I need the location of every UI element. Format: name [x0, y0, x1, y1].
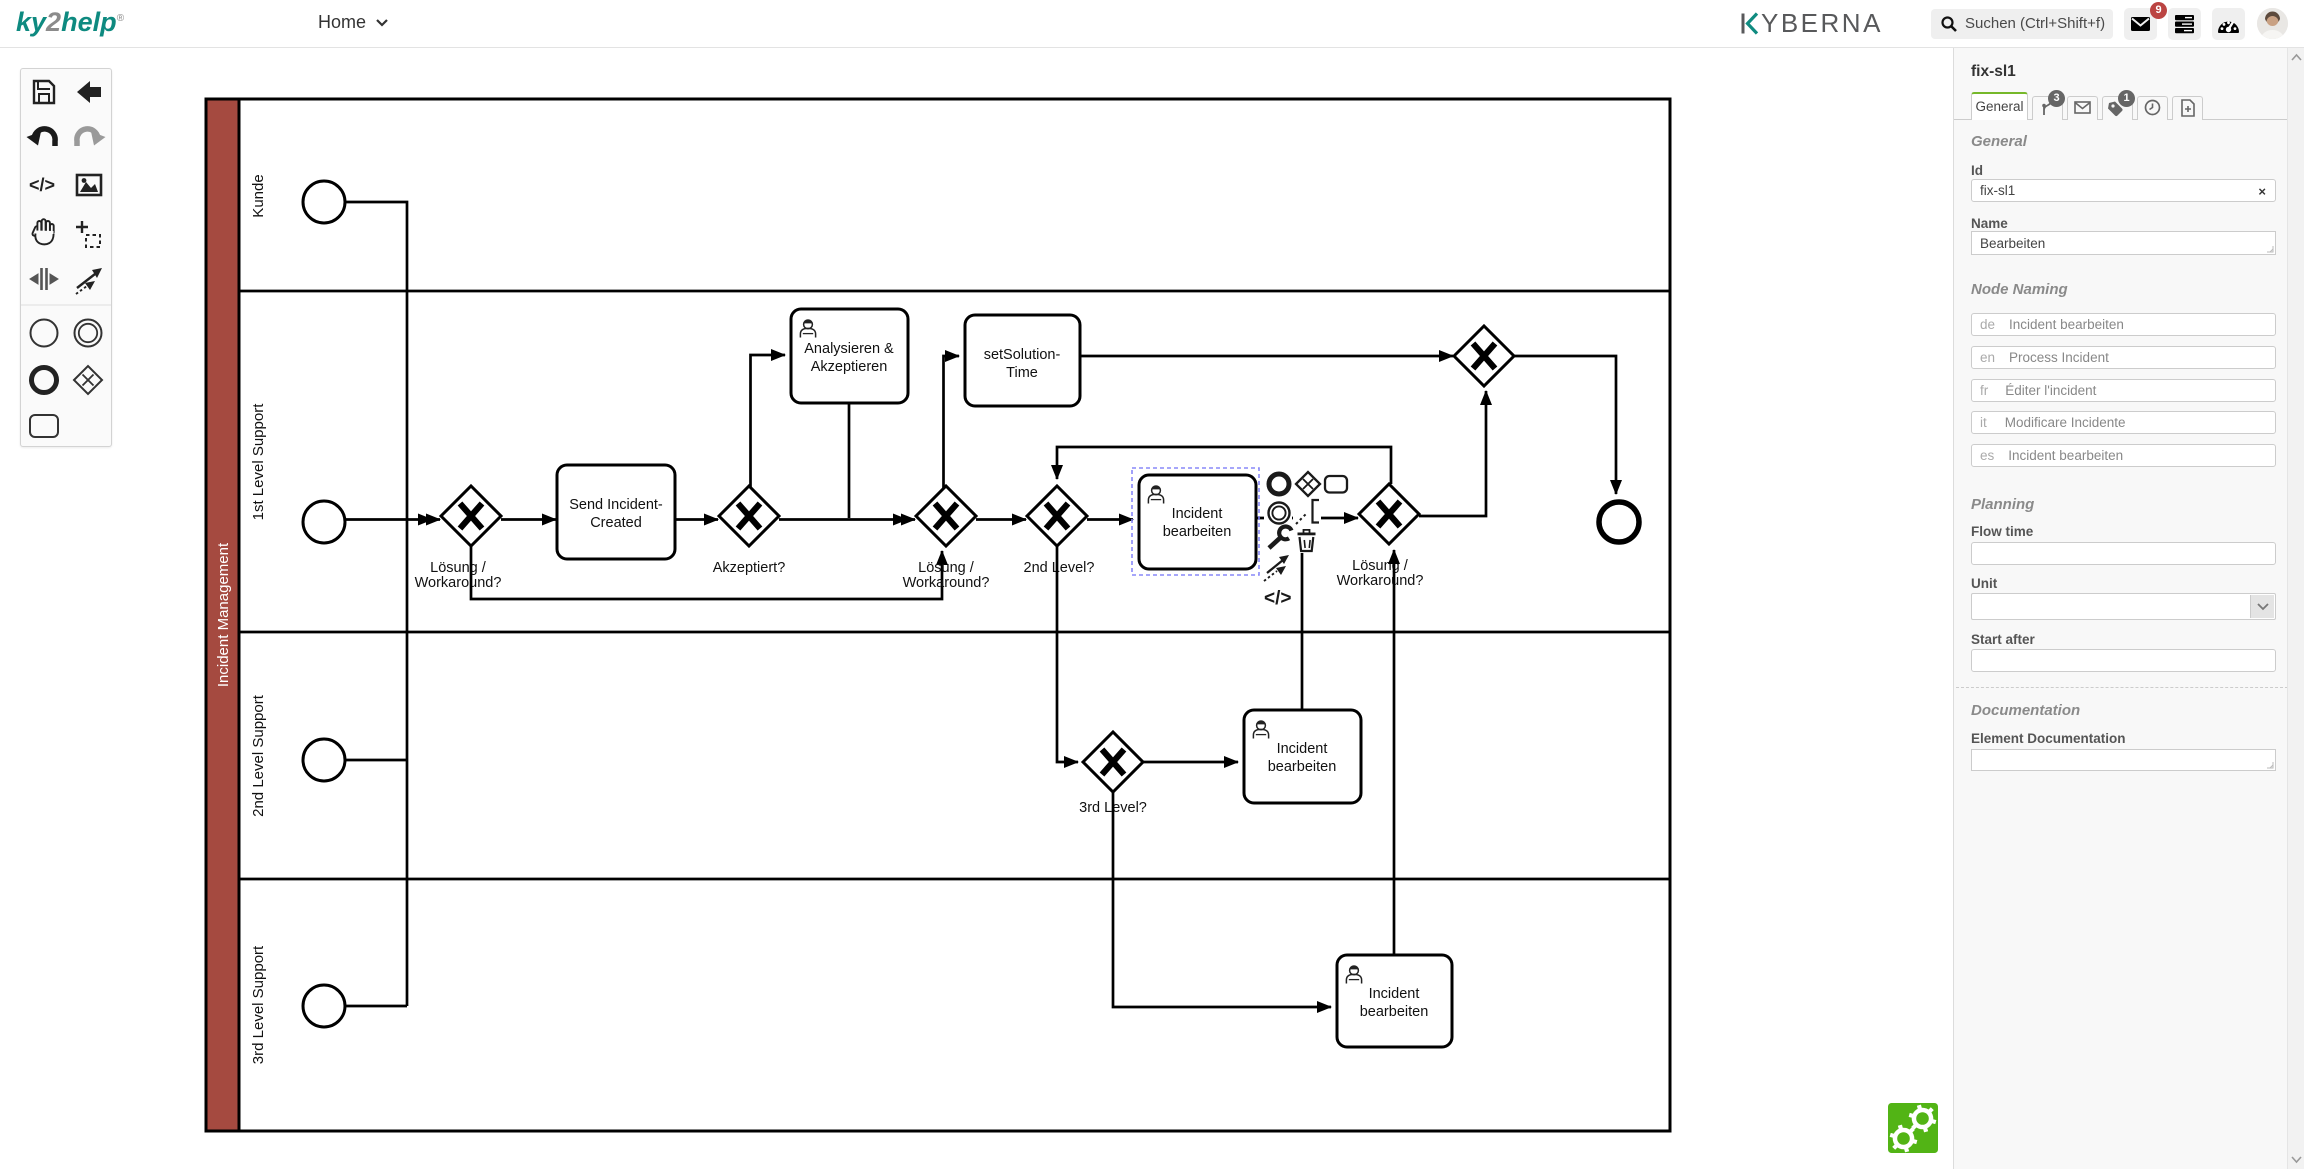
icon back arrow — [77, 81, 101, 103]
section General — [1971, 133, 2027, 150]
icon undo — [27, 129, 56, 146]
start event Kunde — [303, 181, 345, 223]
start event 3rd Level — [303, 985, 345, 1027]
wire G5 right up into G6 — [1419, 391, 1486, 516]
input it — [1971, 411, 2276, 434]
tab General active — [1971, 92, 2028, 120]
properties panel — [1953, 48, 2287, 1169]
icon save — [34, 81, 54, 103]
selection outline — [1132, 468, 1259, 575]
wire Send to gateway Akzeptiert — [675, 518, 718, 521]
pad icon trash — [1298, 530, 1316, 551]
section Node Naming — [1971, 281, 2068, 298]
selected task Incident bearbeiten — [1139, 475, 1256, 569]
input Start after — [1971, 649, 2276, 672]
section Planning — [1971, 496, 2034, 513]
input Flow time — [1971, 542, 2276, 565]
top bar — [0, 0, 2304, 48]
pad icon task — [1325, 476, 1347, 493]
tab milestones — [2032, 96, 2063, 120]
gateway G1 Loesung/Workaround — [441, 486, 501, 546]
wire start1st to gateway G1 — [345, 518, 440, 521]
ky2help logo — [16, 7, 124, 38]
task Analysieren & Akzeptieren — [791, 309, 908, 403]
dashed separator — [1956, 687, 2288, 688]
input es — [1971, 444, 2276, 467]
task 2nd Incident bearbeiten — [1244, 710, 1361, 803]
gateway G4 2nd Level — [1027, 486, 1117, 546]
svg-text:3rd Level Support: 3rd Level Support — [250, 945, 267, 1064]
svg-text:</>: </> — [29, 175, 55, 195]
wire task3rd up into G5 — [1393, 550, 1396, 955]
section Documentation — [1971, 702, 2080, 719]
tab tags — [2102, 96, 2133, 120]
wire G1 loop down right up to G3 — [471, 546, 942, 599]
bpmn.io logo — [1888, 1103, 1938, 1153]
panel title — [1971, 63, 2016, 81]
second arrowhead into G3 — [893, 514, 908, 526]
context pad background — [1264, 469, 1349, 608]
label Id — [1971, 163, 1983, 178]
wire task2nd up to flow — [1301, 552, 1304, 710]
label Start after — [1971, 632, 2035, 647]
start event 2nd Level — [303, 739, 345, 781]
input en — [1971, 346, 2276, 369]
mail badge 9 — [2150, 2, 2167, 19]
start event 1st Level — [303, 501, 345, 543]
tab mail — [2067, 96, 2098, 120]
wire G4 down to gateway G7 — [1057, 546, 1078, 762]
svg-text:2nd Level Support: 2nd Level Support — [250, 694, 267, 817]
lane divider 2 — [239, 631, 1670, 634]
tab document — [2172, 96, 2203, 120]
icon intermediate event — [75, 320, 102, 347]
input fr — [1971, 379, 2276, 402]
icon hand tool — [32, 219, 54, 244]
label Unit — [1971, 576, 1997, 591]
wire G7 down to task3rd — [1113, 792, 1331, 1007]
textarea Name — [1971, 231, 2276, 255]
pad icon text annotation — [1296, 500, 1319, 524]
svg-text:</>: </> — [1264, 588, 1291, 609]
lane divider 1 — [239, 290, 1670, 293]
pad icon end event — [1269, 474, 1289, 494]
search box — [1931, 9, 2113, 39]
wire G3 up to task setSolution — [944, 356, 960, 489]
label Element Documentation — [1971, 731, 2126, 746]
wire Akzeptiert up to task Analysieren — [751, 355, 786, 488]
task 3rd Incident bearbeiten — [1337, 955, 1452, 1047]
badge 1 — [2118, 90, 2135, 107]
icon start event — [31, 320, 58, 347]
input Id — [1971, 179, 2276, 202]
icon connector — [76, 268, 102, 294]
gateway G7 3rd Level — [1083, 732, 1143, 792]
wire G4 to selected task — [1087, 518, 1133, 521]
select Unit — [1971, 593, 2276, 620]
svg-text:Incident Management: Incident Management — [215, 542, 232, 687]
svg-text:Kunde: Kunde — [250, 174, 267, 217]
wire Analysieren down to flow — [848, 403, 851, 518]
wire G3 to gateway G4 — [976, 518, 1026, 521]
task setSolution-Time — [965, 315, 1080, 406]
palette separator — [21, 304, 111, 306]
wire selected task to gateway G5 — [1256, 517, 1358, 520]
wire G1 to task Send — [501, 518, 556, 521]
wire Akzeptiert to gateway G3 — [779, 518, 915, 521]
gateway G2 Akzeptiert — [719, 486, 779, 546]
KYBERNA logo — [1741, 10, 1883, 36]
Home menu — [318, 12, 388, 33]
tab clock — [2137, 96, 2168, 120]
icon lasso tool — [76, 221, 100, 247]
icon space tool — [30, 268, 58, 290]
badge 3 — [2048, 90, 2065, 107]
end event — [1599, 502, 1639, 542]
scrollbar — [2287, 48, 2304, 1169]
gateway G5 Loesung/Workaround right — [1359, 484, 1419, 544]
pad icon gateway — [1296, 472, 1320, 496]
icon end event — [32, 368, 57, 393]
label Name — [1971, 216, 2008, 231]
pad icon wrench — [1269, 526, 1292, 548]
second arrowhead into G1 — [418, 514, 433, 526]
icon image — [77, 175, 101, 195]
dashboard button — [2212, 8, 2245, 40]
pool Incident Management — [206, 99, 1670, 1131]
gateway G6 top right — [1454, 326, 1514, 386]
textarea Element Documentation — [1971, 749, 2276, 771]
wire start links vertical — [345, 202, 407, 1006]
mail button — [2124, 8, 2157, 40]
input de — [1971, 313, 2276, 336]
left tool palette — [20, 68, 112, 447]
wire G5loop down into G4 top — [1057, 447, 1391, 484]
pad icon connect — [1264, 555, 1289, 581]
icon task — [30, 415, 58, 437]
icon gateway — [74, 366, 102, 394]
label Flow time — [1971, 524, 2033, 539]
svg-text:1st Level Support: 1st Level Support — [250, 403, 267, 521]
svg-text:Akzeptiert?: Akzeptiert? — [713, 560, 786, 576]
pad icon intermediate event — [1269, 503, 1290, 524]
wire G7 to task2nd — [1143, 761, 1238, 764]
lane divider 3 — [239, 878, 1670, 881]
gateway G3 Loesung/Workaround — [916, 486, 976, 546]
task Send Incident-Created — [557, 465, 675, 559]
wire setSolution to gateway G6 — [1080, 355, 1453, 358]
wire G6 to end event — [1514, 356, 1616, 494]
icon redo — [77, 129, 106, 146]
server button — [2168, 8, 2201, 40]
user avatar — [2257, 8, 2288, 39]
svg-text:2nd Level?: 2nd Level? — [1024, 560, 1095, 576]
tab row baseline — [1954, 119, 2288, 120]
pool header bar — [206, 99, 239, 1131]
